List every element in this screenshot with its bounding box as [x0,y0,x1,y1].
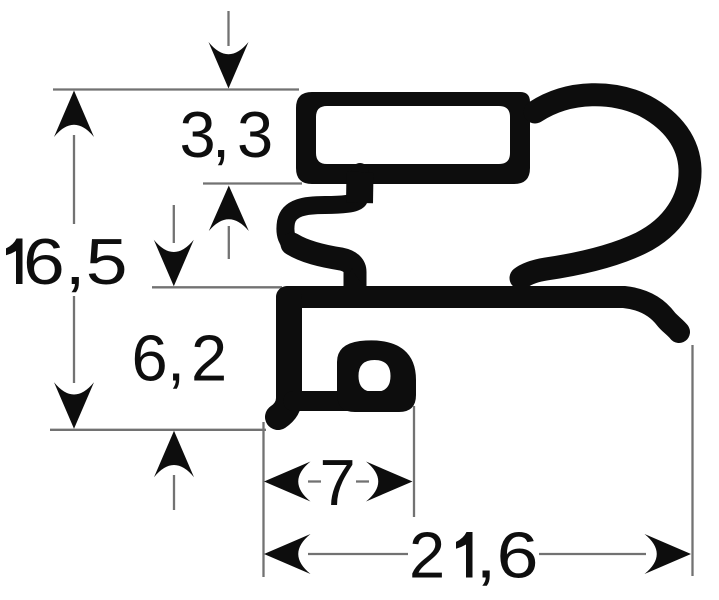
dimension 6,2 top arrow shaft [173,205,175,243]
arrow 7 left (points left) [264,462,311,502]
dimension 16,5 shaft upper [73,135,75,224]
arrow 16,5 bottom (down) [54,382,94,429]
arrow 21,6 right (points right) [645,534,692,574]
arrow 7 right (points right) [366,462,413,502]
svg-text:6,5: 6,5 [23,225,128,298]
extension line top (profile top edge, y=89.5) [53,88,299,90]
profile: bottom horizontal wall with right tip [287,297,679,332]
dimension 7 line right stub [356,480,369,482]
profile: big right lobe (open hook) [521,95,690,278]
svg-text:2: 2 [409,519,445,592]
svg-text:,6: ,6 [476,519,539,592]
profile: top hollow tube (rounded rectangle with white core) [296,92,530,184]
arrow 3,3 top (down) [209,42,249,89]
profile: fillet at web-to-wall junction [338,268,386,297]
profile: S-shaped middle web (lower run) [292,244,355,295]
profile: neck reinforcement [346,172,374,203]
extension line at y=287 (top of 6,2) [152,286,282,288]
profile: foot bar [293,391,397,411]
svg-text:,: , [212,98,230,171]
svg-text:3: 3 [180,98,216,171]
arrow 16,5 top (up) [54,91,94,138]
dimension text 3,3 [180,98,274,171]
arrow 3,3 bottom (up) [209,186,249,232]
profile: bottom ring (hollow bulb) [337,340,416,412]
dimension 6,2 bottom arrow shaft [173,475,175,510]
dimension 7 line left stub [308,480,321,482]
arrow 21,6 left (points left) [264,534,311,574]
svg-text:,: , [167,322,185,395]
dimension text 6,2 [132,322,228,395]
dimension 3,3 top arrow shaft [227,11,229,46]
extension line at y=183.5 (bottom of 3,3) [203,182,302,184]
extension line bottom (y=429.5, bottom of profile) [50,429,266,431]
dimension 21,6 line left segment [308,553,408,555]
svg-text:3: 3 [237,98,273,171]
extension line vertical left (x=263.5) [262,422,264,577]
dimension text 21,6 : digit 1 drawn (Arial style, no foot) [409,519,539,592]
svg-text:7: 7 [320,446,356,519]
profile: S-shaped middle web (upper run) [285,172,360,248]
arrow 6,2 top (down) [154,240,194,286]
svg-text:2: 2 [191,322,227,395]
profile: left leg with lower-left tail [278,299,289,417]
dimension text 16,5 : digit 1 drawn (Arial style, no foot) [6,239,23,285]
dimension 21,6 line right segment [539,553,646,555]
extension line vertical right (x=692.5) [691,345,693,576]
svg-text:6: 6 [132,322,168,395]
arrow 6,2 bottom (up) [154,431,194,478]
dimension 16,5 shaft lower [73,296,75,383]
extension line vertical middle (x=414) [413,406,415,517]
dimension 3,3 bottom arrow shaft [228,226,230,259]
